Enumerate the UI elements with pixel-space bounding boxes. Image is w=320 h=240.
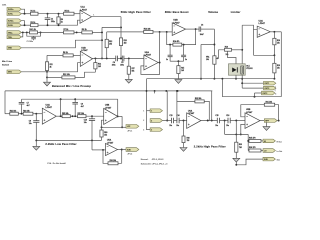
- connector JP4-1: [150, 109, 162, 113]
- svg-text:U1B: U1B: [81, 48, 86, 50]
- wire caps join: [170, 60, 184, 62]
- wire feedback y55.3: [254, 54, 276, 56]
- svg-text:C6: C6: [201, 25, 203, 27]
- resistor R14 47k: [173, 40, 182, 46]
- note Output vertical: [274, 85, 277, 91]
- resistor R32 56k: [195, 98, 204, 103]
- svg-text:XLR2+: XLR2+: [8, 21, 14, 23]
- wire C14 to U6A: [179, 120, 187, 122]
- capacitor C5 100n: [120, 56, 124, 67]
- svg-text:Volume: Volume: [208, 10, 218, 14]
- svg-text:OC1: OC1: [246, 65, 250, 67]
- svg-text:U5B: U5B: [246, 109, 251, 111]
- svg-text:Lo Out: Lo Out: [277, 150, 283, 153]
- resistor R2 1k: [31, 22, 39, 27]
- resistor R7 2k: [64, 29, 75, 34]
- svg-text:R32 56k: R32 56k: [195, 98, 201, 100]
- ground mic switch: [44, 82, 51, 86]
- wire x201 to rail: [200, 45, 202, 80]
- resistor R18 10k vertical: [273, 32, 280, 56]
- svg-text:LF347: LF347: [246, 111, 253, 114]
- note normal jumpers: [141, 158, 165, 161]
- svg-text:U2B: U2B: [173, 20, 178, 22]
- wire y134.4: [225, 133, 249, 135]
- svg-text:4n7: 4n7: [27, 104, 30, 107]
- svg-text:1k5: 1k5: [124, 43, 127, 45]
- note Mic / Line Switch: [2, 61, 13, 67]
- svg-text:10n: 10n: [215, 125, 218, 127]
- svg-text:Balanced Mic / Line Preamp: Balanced Mic / Line Preamp: [52, 84, 91, 88]
- svg-text:R4 1.2k: R4 1.2k: [30, 28, 36, 31]
- svg-text:10k: 10k: [226, 54, 229, 56]
- title 2.2kHz Low Pass Filter: [45, 142, 76, 146]
- svg-text:HPF: HPF: [265, 120, 269, 122]
- wire R35 R36 feed: [247, 134, 249, 150]
- resistor R31 10k: [264, 102, 274, 107]
- resistor R12 10k: [47, 74, 75, 79]
- resistor R27 16k: [78, 113, 87, 118]
- wire R2 to U1A noninv: [38, 20, 80, 26]
- resistor R23 16k: [23, 110, 33, 115]
- resistor R15 1k5 vertical: [177, 61, 184, 78]
- wiper VR1: [216, 57, 218, 59]
- wire R33 top: [235, 121, 237, 135]
- svg-text:XLR2-: XLR2-: [8, 25, 13, 27]
- svg-text:Limiter: Limiter: [231, 10, 241, 14]
- resistor R9 1k: [82, 29, 93, 34]
- connector JP4-2: [150, 119, 162, 123]
- wire R4 to R7: [38, 31, 64, 33]
- svg-text:100n: 100n: [120, 64, 124, 66]
- svg-text:10n: 10n: [29, 123, 32, 125]
- svg-text:2k: 2k: [50, 66, 52, 68]
- wire TRS- up: [21, 32, 22, 37]
- wire rail riser: [146, 79, 148, 91]
- svg-text:1k5: 1k5: [181, 70, 184, 72]
- potentiometer VR1 10k: [206, 56, 216, 80]
- svg-text:10n: 10n: [84, 122, 87, 124]
- op-amp U2A LF347: [144, 51, 158, 70]
- wire R1 to R5: [38, 13, 64, 15]
- op-amp U1A LF347: [80, 6, 92, 24]
- wire HPF loop left: [176, 90, 178, 121]
- svg-text:3: 3: [143, 130, 144, 132]
- wire link y90.9: [5, 90, 212, 92]
- wire U5B feedback loop: [241, 105, 280, 122]
- resistor R1 1k: [31, 10, 39, 15]
- svg-text:C1 100n: C1 100n: [27, 41, 33, 43]
- wire U5B noninv return: [240, 124, 245, 135]
- wire R5 to U1A inv: [74, 13, 80, 15]
- svg-text:Mic / Line: Mic / Line: [2, 61, 13, 63]
- connector TRS+: [7, 31, 21, 35]
- svg-text:U4A: U4A: [46, 103, 51, 106]
- connector JP1-1: [126, 125, 139, 133]
- resistor R4 1.2k: [30, 28, 38, 34]
- wire R21 R23: [18, 113, 23, 115]
- op-amp U2B LF347: [172, 20, 185, 36]
- capacitor C6 10uF: [199, 25, 214, 36]
- resistor R19 10k vertical: [273, 55, 280, 79]
- op-amp U5A LF347: [106, 139, 118, 156]
- svg-text:Sub: Sub: [277, 160, 280, 162]
- connector low out: [263, 149, 282, 153]
- svg-text:10n: 10n: [169, 125, 172, 127]
- wire U4B out up: [117, 99, 119, 117]
- wire U4B out down: [121, 116, 123, 128]
- svg-text:U6A: U6A: [188, 109, 193, 112]
- wire HPF out tip: [277, 120, 278, 122]
- svg-text:R19: R19: [277, 65, 280, 67]
- resistor R16 10k: [225, 47, 232, 56]
- resistor R6 1k vertical: [57, 14, 63, 26]
- svg-text:10k: 10k: [277, 68, 280, 70]
- connector SW1: [7, 70, 21, 74]
- wire C4 C5 midnode: [117, 57, 122, 59]
- wire C15 C16 node down: [224, 121, 226, 135]
- wire HPF loop top: [177, 101, 209, 120]
- capacitor C3 220p: [45, 14, 55, 26]
- note subwoofer jumpers: [141, 162, 169, 165]
- wire U2B feedback loop: [167, 28, 197, 45]
- svg-text:TRS-: TRS-: [8, 37, 13, 39]
- resistor R25 16k: [62, 113, 70, 118]
- capacitor C1 100n: [27, 36, 36, 43]
- connector XLR1-: [7, 12, 21, 16]
- svg-text:R28: R28: [187, 138, 190, 140]
- svg-text:OUT3: OUT3: [263, 93, 268, 95]
- op-amp U4A LF347: [42, 103, 56, 124]
- resistor R28 7k5 vertical: [182, 121, 190, 148]
- ground HPF out: [263, 122, 270, 130]
- capacitor C8 1u: [181, 45, 187, 62]
- wire inner feedback y99.2: [22, 98, 118, 100]
- svg-text:10k: 10k: [104, 134, 107, 136]
- note JP4 pin 1: [143, 111, 144, 113]
- wire U1B output: [93, 57, 116, 59]
- capacitor C16 10n: [226, 115, 230, 127]
- svg-text:LF347: LF347: [46, 106, 53, 109]
- wire C6 down to pot: [213, 29, 215, 56]
- connector XLR2-: [7, 23, 21, 27]
- wire U2A loop: [141, 63, 160, 75]
- svg-text:C3: C3: [51, 18, 53, 20]
- connector limiter out 2: [264, 86, 276, 90]
- svg-text:80Hz Bass Boost: 80Hz Bass Boost: [165, 10, 189, 14]
- wire R9 to node x102: [92, 31, 102, 33]
- ground R17: [125, 79, 132, 83]
- resistor R17 56k vertical: [127, 58, 134, 79]
- resistor R10 1k5 vertical: [119, 38, 126, 46]
- svg-text:C14 - Do Not Install: C14 - Do Not Install: [47, 162, 66, 165]
- svg-text:1k: 1k: [61, 21, 63, 23]
- connector limiter out 3: [255, 91, 277, 97]
- wire U6A out: [201, 120, 217, 122]
- op-amp U1B LF347: [80, 48, 92, 67]
- svg-text:LF347: LF347: [259, 22, 266, 25]
- title Limiter: [231, 10, 241, 14]
- svg-text:220p: 220p: [51, 21, 55, 23]
- capacitor C10 10n: [84, 116, 95, 140]
- wire U6A out up: [211, 91, 213, 121]
- svg-text:U4B: U4B: [105, 104, 110, 107]
- wire to JP1-3 label: [122, 149, 126, 151]
- wire R23 to U4A: [33, 113, 42, 115]
- svg-text:XLR1-: XLR1-: [8, 14, 13, 16]
- wire R12 to feedback: [75, 72, 95, 77]
- title Volume: [208, 10, 218, 14]
- wire y96.7: [222, 96, 281, 98]
- wire U3A inv loop: [254, 30, 258, 56]
- svg-text:50Hz High Pass Filter: 50Hz High Pass Filter: [121, 10, 151, 14]
- title 50Hz High Pass Filter: [121, 10, 151, 14]
- svg-text:10n: 10n: [226, 125, 229, 127]
- wire U5A loop R30: [103, 150, 122, 164]
- svg-text:C13: C13: [169, 115, 172, 117]
- wire U2A out up: [158, 32, 160, 64]
- wire R33 chain: [235, 134, 242, 164]
- wire U5B out: [260, 120, 264, 122]
- wire C5 to U2A: [124, 57, 144, 59]
- wire out1 feed: [242, 82, 263, 84]
- svg-text:5: 5: [275, 93, 276, 95]
- resistor R35 270: [249, 138, 261, 143]
- svg-text:LPF: LPF: [127, 126, 130, 128]
- resistor R29 10k vertical: [100, 127, 107, 140]
- svg-text:10k: 10k: [277, 42, 280, 44]
- resistor R11 2k vertical: [45, 55, 52, 78]
- wire x102 vertical: [101, 27, 103, 59]
- wire signal x242: [241, 25, 243, 64]
- wire XLR1+ to junction: [21, 9, 24, 14]
- wire JP4 bus x167.2: [166, 91, 168, 122]
- connector XLR2+: [7, 19, 21, 23]
- wire sub out feed: [235, 159, 263, 166]
- connector JP1-3: [126, 148, 139, 156]
- wire C16 to U5B: [230, 120, 245, 122]
- svg-text:1: 1: [93, 14, 94, 16]
- svg-text:2: 2: [151, 120, 152, 122]
- op-amp U5B LF347: [245, 109, 260, 128]
- svg-text:R18: R18: [277, 40, 280, 42]
- note C14 do not install: [47, 162, 66, 165]
- capacitor C4 100n: [112, 56, 118, 67]
- wire branch y27 to x102: [102, 26, 121, 28]
- capacitor C15 10n: [215, 115, 219, 127]
- svg-text:7k5: 7k5: [239, 147, 242, 149]
- resistor R13b 22k: [144, 29, 153, 34]
- wire R25 R27: [70, 115, 77, 117]
- svg-text:U5A: U5A: [107, 139, 112, 142]
- connector HPF out: [264, 119, 277, 123]
- svg-text:2.2kHz High Pass Filter: 2.2kHz High Pass Filter: [194, 144, 226, 148]
- wire right return: [280, 32, 282, 97]
- connector GND: [7, 46, 21, 50]
- wire node to U4B noninv: [101, 120, 123, 128]
- wire TRS+ to rail: [21, 31, 29, 33]
- wire x154.6 stub: [154, 91, 156, 94]
- wire R16 to LED: [228, 51, 237, 64]
- svg-text:Hi Out: Hi Out: [277, 140, 282, 143]
- wire feedback y31.9: [107, 31, 144, 33]
- connector sub out: [263, 157, 280, 161]
- wire R16 to node: [232, 49, 243, 51]
- wire JP4-2 to caps: [163, 120, 172, 122]
- wire node A row1: [21, 13, 30, 15]
- wire wiper to R16: [217, 50, 225, 59]
- svg-text:SW1: SW1: [8, 72, 12, 74]
- title Balanced Mic / Line Preamp: [52, 84, 91, 88]
- wire x222 down: [221, 79, 223, 97]
- wire R13b to out node: [153, 31, 161, 33]
- svg-text:56k: 56k: [132, 71, 135, 73]
- wire rail y140.4: [35, 139, 101, 141]
- capacitor C14 10n: [176, 114, 179, 127]
- resistor R5 1k: [64, 10, 75, 15]
- svg-text:OUT2: OUT2: [265, 88, 270, 90]
- svg-text:C16: C16: [226, 115, 229, 117]
- ground R33: [233, 158, 240, 162]
- wire U2B output: [186, 28, 200, 30]
- wire node B row2: [21, 24, 30, 26]
- pin 1 U1A: [93, 14, 94, 16]
- title 80Hz Bass Boost: [165, 10, 189, 14]
- op-amp U3A LF347: [257, 19, 270, 37]
- svg-text:CN1: CN1: [2, 5, 7, 7]
- wire U5A out: [118, 149, 123, 151]
- svg-text:LF347: LF347: [107, 141, 114, 144]
- svg-text:2.2kHz Low Pass Filter: 2.2kHz Low Pass Filter: [45, 142, 76, 146]
- note CN1: [2, 5, 7, 7]
- wire U4A out up: [60, 99, 62, 116]
- svg-text:100n: 100n: [112, 64, 116, 66]
- wire U4A out: [56, 115, 62, 117]
- op-amp U4B LF347: [104, 104, 118, 125]
- wire R27 to U4B: [86, 115, 104, 117]
- wire y44.5 branch: [201, 44, 214, 46]
- connector limiter out 1: [264, 81, 276, 85]
- connector high out: [263, 139, 282, 143]
- wire to JP1-1 label: [122, 126, 126, 128]
- wire input y25.2: [242, 25, 253, 30]
- resistor R13 1k5 vertical: [94, 58, 101, 72]
- svg-text:U2A: U2A: [145, 51, 150, 54]
- wire U4B out: [118, 115, 122, 117]
- wire GND label run: [21, 40, 102, 48]
- svg-text:Switch: Switch: [2, 64, 10, 67]
- wire out2 feed: [242, 87, 263, 89]
- svg-text:JP1-3: JP1-3: [127, 154, 132, 156]
- svg-text:1: 1: [151, 111, 152, 113]
- title 2.2kHz High Pass Filter: [194, 144, 226, 148]
- svg-text:OUT1: OUT1: [265, 83, 270, 85]
- capacitor C9 4n7: [72, 99, 83, 116]
- svg-text:R14 47k: R14 47k: [173, 40, 179, 43]
- wire LPF input vertical: [4, 91, 6, 114]
- wire C15 C16: [220, 120, 229, 122]
- op-amp U6A LF347: [187, 109, 201, 128]
- connector XLR1+: [7, 7, 21, 11]
- svg-text:R17: R17: [132, 68, 135, 70]
- svg-text:C15: C15: [215, 115, 218, 117]
- capacitor C8b 10n: [29, 114, 40, 141]
- optocoupler OC1 VTL5C4: [229, 64, 253, 75]
- svg-text:1k5: 1k5: [98, 66, 101, 68]
- svg-text:10uF: 10uF: [200, 34, 204, 36]
- svg-text:U3A: U3A: [259, 19, 264, 22]
- svg-text:VTL5C4: VTL5C4: [246, 67, 252, 70]
- connector JP4-3: [150, 128, 162, 132]
- svg-text:Normal: JP1-2, JP4-3: Normal: JP1-2, JP4-3: [141, 158, 165, 161]
- capacitor C13 10n: [169, 115, 173, 127]
- svg-text:LF347: LF347: [81, 49, 88, 52]
- connector TRS-: [7, 35, 21, 39]
- svg-text:7k5: 7k5: [187, 140, 190, 142]
- ground R28: [180, 148, 187, 152]
- svg-text:10n: 10n: [176, 125, 179, 127]
- wire JP4 left feed: [146, 90, 151, 130]
- svg-text:1: 1: [143, 111, 144, 113]
- svg-text:XLR1+: XLR1+: [8, 9, 14, 11]
- svg-text:10k: 10k: [109, 44, 112, 46]
- wire loop under R4: [27, 31, 42, 36]
- wire to U5A: [92, 140, 106, 150]
- svg-text:4n7: 4n7: [81, 105, 84, 108]
- wire C13 C14: [174, 120, 177, 122]
- svg-text:1u: 1u: [185, 59, 187, 61]
- wire R35 to out: [261, 140, 263, 142]
- resistor R30 10k: [108, 160, 118, 165]
- ground LPF: [33, 140, 40, 150]
- resistor R8 1k: [47, 52, 80, 57]
- wire opto pins to rail: [235, 75, 243, 88]
- wire R7 to R9: [74, 31, 82, 33]
- wire SW1 run: [21, 63, 80, 73]
- ground R15: [175, 80, 182, 84]
- wire R36 to out: [261, 150, 263, 152]
- capacitor C7b 4n7: [19, 99, 30, 114]
- capacitor C7 1u: [166, 45, 173, 62]
- note JP4 pin 3: [143, 130, 144, 132]
- wire R11 to ground: [46, 77, 48, 82]
- svg-text:R15: R15: [181, 67, 184, 69]
- svg-text:C5: C5: [121, 62, 123, 64]
- svg-text:TRS+: TRS+: [8, 32, 13, 34]
- note JP4 pin 2: [143, 120, 144, 122]
- wire U1A out down: [120, 17, 122, 38]
- resistor R36 270: [249, 147, 261, 152]
- svg-text:JP1-1: JP1-1: [127, 130, 132, 132]
- wire U1A output: [92, 16, 122, 18]
- svg-text:2: 2: [143, 120, 144, 122]
- wire ground rail y78.7: [147, 78, 275, 80]
- svg-text:LF347: LF347: [105, 106, 112, 109]
- wire XLR2+ to junction: [21, 21, 24, 26]
- svg-text:1u: 1u: [166, 59, 168, 61]
- svg-text:Output: Output: [274, 85, 277, 91]
- resistor R12b 10k vertical: [105, 32, 112, 59]
- svg-text:Subwoofer: JP1-2, JP4-1 + 3: Subwoofer: JP1-2, JP4-1 + 3: [141, 162, 169, 165]
- wire to U2B input: [160, 31, 173, 33]
- svg-text:3: 3: [151, 129, 152, 131]
- wire U3A output: [270, 31, 281, 33]
- svg-text:10k: 10k: [206, 59, 209, 61]
- resistor R21 16k: [5, 110, 18, 115]
- wire R10 to rail: [120, 46, 122, 60]
- svg-text:U1A: U1A: [81, 6, 86, 9]
